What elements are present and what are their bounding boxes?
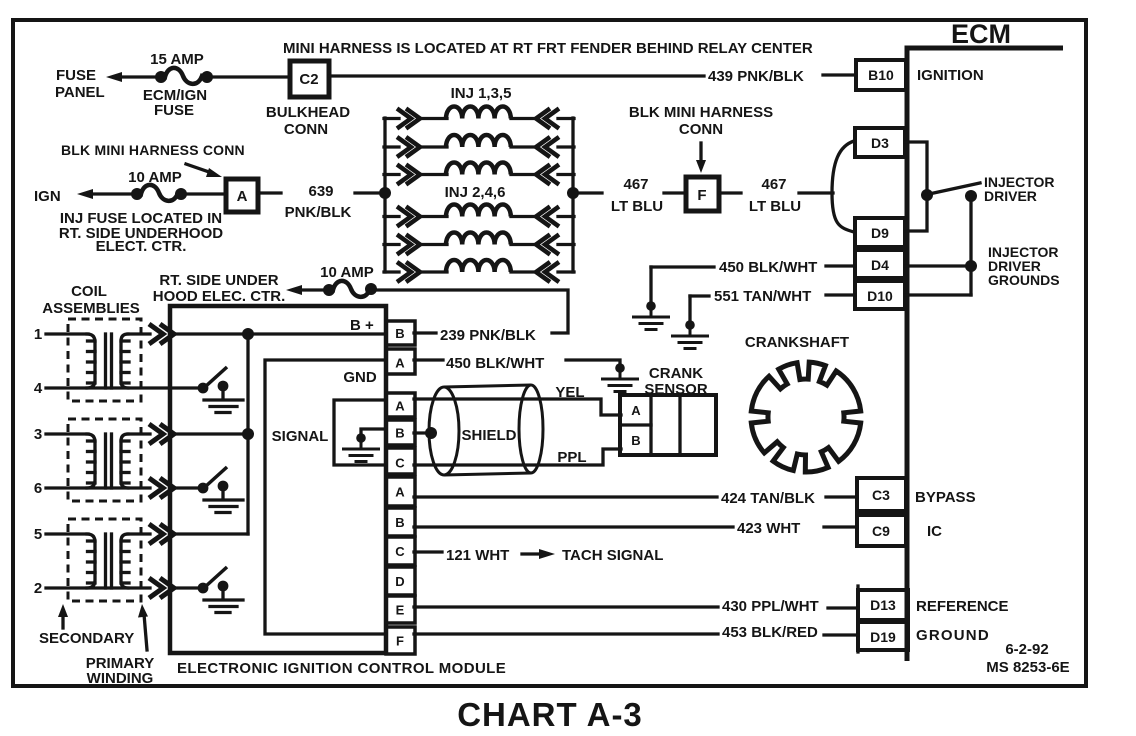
wire 639 to injector rail [355, 191, 384, 194]
node injector driver grounds top [965, 190, 977, 202]
svg-text:ELECTRONIC IGNITION CONTROL MO: ELECTRONIC IGNITION CONTROL MODULE [177, 660, 506, 677]
svg-text:423 WHT: 423 WHT [737, 520, 800, 537]
wire pin C to crank sensor (PPL) [414, 449, 621, 465]
svg-text:CRANKSHAFT: CRANKSHAFT [745, 334, 849, 351]
bracket curve D3-D9 [832, 141, 854, 232]
svg-text:GROUND: GROUND [916, 627, 990, 644]
svg-text:SECONDARY: SECONDARY [39, 630, 134, 647]
injector row (INJ 2) [384, 205, 574, 227]
svg-text:YEL: YEL [555, 384, 584, 401]
ECM pin C3 [855, 478, 858, 546]
svg-text:450 BLK/WHT: 450 BLK/WHT [446, 355, 544, 372]
wire D10 to ground node [905, 293, 971, 296]
injector row (INJ 6) [384, 260, 574, 282]
svg-text:WINDING: WINDING [87, 670, 154, 687]
svg-text:A: A [395, 485, 405, 500]
svg-text:COIL: COIL [71, 283, 107, 300]
pin B [386, 508, 415, 536]
wire F to 467 label [719, 191, 741, 194]
svg-text:C2: C2 [299, 71, 318, 88]
connector A [226, 179, 258, 212]
svg-text:3: 3 [34, 426, 42, 443]
svg-text:PPL: PPL [557, 449, 586, 466]
ground (450 BLK/WHT) [632, 301, 670, 329]
svg-text:IGNITION: IGNITION [917, 67, 984, 84]
svg-text:GROUNDS: GROUNDS [988, 272, 1060, 288]
chevron row 1 [149, 324, 174, 344]
wire 450 BLK/WHT to D4 [826, 264, 855, 267]
pin E [386, 596, 415, 623]
injector bank left rail [383, 118, 386, 272]
chevron row 2 [149, 578, 174, 598]
svg-text:A: A [395, 399, 405, 414]
ECM pin D10 [855, 281, 905, 309]
svg-text:INJ 1,3,5: INJ 1,3,5 [451, 85, 512, 102]
node: 639 junction on left rail [379, 187, 391, 199]
svg-text:CHART A-3: CHART A-3 [457, 696, 643, 733]
svg-text:IGN: IGN [34, 188, 61, 205]
node bus top [242, 328, 254, 340]
svg-text:5: 5 [34, 526, 42, 543]
pin A [386, 477, 415, 506]
switch driver 3/6 [198, 467, 243, 513]
svg-text:D9: D9 [871, 225, 889, 241]
svg-text:D3: D3 [871, 135, 889, 151]
svg-text:1: 1 [34, 326, 42, 343]
svg-text:639: 639 [308, 183, 333, 200]
svg-text:C9: C9 [872, 523, 890, 539]
chevron row 6 [149, 478, 174, 498]
svg-text:B: B [631, 433, 640, 448]
svg-text:B: B [395, 326, 404, 341]
svg-text:CONN: CONN [679, 121, 723, 138]
svg-text:REFERENCE: REFERENCE [916, 598, 1009, 615]
shield cylinder [429, 385, 543, 475]
ECM pin D4 [855, 250, 905, 278]
wire internal signal ground [361, 429, 386, 433]
bracket signal pins [334, 400, 386, 465]
svg-text:F: F [697, 187, 706, 204]
svg-text:D10: D10 [867, 288, 893, 304]
wire to F [664, 191, 684, 194]
svg-text:E: E [396, 603, 405, 618]
ECM pin D9 [855, 218, 905, 247]
svg-text:A: A [237, 188, 248, 205]
ECM box outline [907, 48, 1063, 661]
ECM pin D19 [858, 622, 908, 650]
chevron row 5 [149, 524, 174, 544]
pin D [386, 567, 415, 595]
wire pin A to crank sensor (YEL) [414, 399, 621, 415]
wire 121 WHT tach [414, 550, 442, 553]
svg-text:15 AMP: 15 AMP [150, 51, 204, 68]
pin C (tach) [386, 537, 415, 565]
wire fuse to C2 [212, 75, 289, 78]
svg-text:INJ 2,4,6: INJ 2,4,6 [445, 184, 506, 201]
ECM pin D13 [856, 586, 859, 652]
pin C (signal) [386, 448, 415, 474]
connector F [686, 177, 719, 211]
svg-text:FUSE: FUSE [56, 67, 96, 84]
svg-text:4: 4 [34, 380, 43, 397]
injector bank right rail [571, 118, 574, 272]
svg-text:439 PNK/BLK: 439 PNK/BLK [708, 68, 804, 85]
svg-text:C3: C3 [872, 487, 890, 503]
svg-text:453 BLK/RED: 453 BLK/RED [722, 624, 818, 641]
wire 467 to D3/D9 bracket [799, 191, 833, 194]
ECM pin D3 [855, 128, 905, 157]
svg-text:ASSEMBLIES: ASSEMBLIES [42, 300, 140, 317]
svg-text:D19: D19 [870, 629, 896, 645]
svg-text:D13: D13 [870, 597, 896, 613]
svg-text:PNK/BLK: PNK/BLK [285, 204, 352, 221]
svg-text:LT BLU: LT BLU [749, 198, 801, 215]
wire 551 TAN/WHT to D10 [826, 293, 855, 296]
svg-text:121 WHT: 121 WHT [446, 547, 509, 564]
wire row 2 [46, 586, 150, 589]
crank sensor connector [620, 395, 716, 455]
svg-text:B: B [395, 426, 404, 441]
svg-text:HOOD ELEC. CTR.: HOOD ELEC. CTR. [153, 288, 286, 305]
ECM pin B10 [856, 60, 906, 90]
wire 239 PNK/BLK [376, 290, 568, 333]
coil assembly 1/4 [46, 319, 150, 401]
switch driver 5/2 [198, 567, 243, 613]
arrow to fuse panel [106, 72, 122, 82]
svg-text:239 PNK/BLK: 239 PNK/BLK [440, 327, 536, 344]
svg-text:551 TAN/WHT: 551 TAN/WHT [714, 288, 811, 305]
svg-text:A: A [395, 356, 405, 371]
arrow to connector F [699, 143, 702, 163]
injector row (INJ 3) [384, 135, 574, 157]
ground (551 TAN/WHT) [671, 320, 709, 348]
electronic ignition control module box [170, 306, 386, 653]
svg-text:10 AMP: 10 AMP [128, 169, 182, 186]
node bus row 3 [242, 428, 254, 440]
svg-text:MINI HARNESS IS LOCATED AT RT: MINI HARNESS IS LOCATED AT RT FRT FENDER… [283, 40, 813, 57]
wire row 6 [46, 486, 150, 489]
injector row (INJ 1) [384, 107, 574, 129]
arrow to IGN [77, 189, 93, 199]
svg-text:B: B [395, 515, 404, 530]
svg-text:MS 8253-6E: MS 8253-6E [986, 659, 1069, 676]
node: 467 junction on right rail [567, 187, 579, 199]
svg-text:C: C [395, 456, 405, 471]
svg-text:424 TAN/BLK: 424 TAN/BLK [721, 490, 815, 507]
svg-text:467: 467 [761, 176, 786, 193]
coil assembly 3/6 [46, 419, 150, 501]
ground (signal) [342, 433, 380, 461]
wire row 5 to bus [174, 532, 248, 535]
wire primary bus [246, 334, 249, 534]
wire 467 left segment [579, 191, 602, 194]
pin B (B+) [386, 321, 415, 345]
svg-text:TACH SIGNAL: TACH SIGNAL [562, 547, 663, 564]
svg-text:ELECT. CTR.: ELECT. CTR. [96, 238, 187, 255]
fuse ECM/IGN 15 AMP [155, 71, 167, 83]
coil assembly 5/2 [46, 519, 150, 601]
svg-text:SIGNAL: SIGNAL [272, 428, 329, 445]
svg-text:CONN: CONN [284, 121, 328, 138]
svg-text:BLK MINI HARNESS: BLK MINI HARNESS [629, 104, 773, 121]
ECM pin C9 [857, 515, 906, 546]
svg-text:C: C [395, 544, 405, 559]
node injector driver [921, 189, 933, 201]
fuse INJ 10 AMP [131, 188, 143, 200]
injector row (INJ 5) [384, 163, 574, 185]
svg-text:CRANK: CRANK [649, 365, 703, 382]
wire pin B to shield [414, 431, 429, 434]
svg-text:6-2-92: 6-2-92 [1005, 641, 1048, 658]
ground (450 BLK/WHT) [601, 363, 639, 391]
svg-text:D: D [395, 574, 404, 589]
wire 423 WHT [414, 525, 733, 528]
svg-text:A: A [631, 403, 641, 418]
wire 453 BLK/RED [414, 632, 718, 635]
svg-text:BULKHEAD: BULKHEAD [266, 104, 350, 121]
svg-text:ECM: ECM [951, 19, 1011, 49]
svg-text:2: 2 [34, 580, 42, 597]
svg-text:467: 467 [623, 176, 648, 193]
crankshaft reluctor wheel [751, 362, 860, 472]
pin A (signal) [386, 393, 415, 417]
injector row (INJ 4) [384, 233, 574, 255]
wire injector driver grounds vertical [969, 196, 972, 295]
svg-text:IC: IC [927, 523, 942, 540]
svg-text:450 BLK/WHT: 450 BLK/WHT [719, 259, 817, 276]
svg-text:BYPASS: BYPASS [915, 489, 976, 506]
pin A (GND) [386, 349, 415, 374]
wire C2 to 439 label [329, 74, 704, 77]
svg-text:DRIVER: DRIVER [984, 188, 1037, 204]
wire B+ [174, 332, 386, 335]
svg-text:430 PPL/WHT: 430 PPL/WHT [722, 598, 819, 615]
svg-text:GND: GND [343, 369, 377, 386]
wire 450 BLK/WHT (module GND) [414, 358, 443, 361]
fuse 10 AMP (ECM B+) [323, 284, 335, 296]
arrow to connector A [186, 164, 212, 173]
wire D3 to injector driver node [905, 142, 927, 231]
svg-text:D4: D4 [871, 257, 889, 273]
bulkhead connector C2 [290, 61, 329, 97]
arrow to elec ctr [286, 285, 302, 295]
switch driver 1/4 [198, 367, 243, 413]
pin F [386, 627, 415, 654]
svg-text:FUSE: FUSE [154, 102, 194, 119]
svg-text:LT BLU: LT BLU [611, 198, 663, 215]
svg-text:F: F [396, 634, 404, 649]
node shield drain [425, 427, 437, 439]
wire 430 PPL/WHT [414, 605, 718, 608]
svg-text:SHIELD: SHIELD [461, 427, 516, 444]
wire row 3 to bus [174, 432, 248, 435]
chevron row 3 [149, 424, 174, 444]
svg-text:B10: B10 [868, 67, 894, 83]
pin B (signal) [386, 420, 415, 445]
wire fuse to A [186, 192, 225, 195]
svg-text:PANEL: PANEL [55, 84, 105, 101]
wire A to 639 label [258, 191, 281, 194]
svg-text:RT. SIDE UNDER: RT. SIDE UNDER [159, 272, 278, 289]
leader to INJECTOR DRIVER label [929, 183, 980, 194]
wire D4 to ground node [905, 264, 971, 267]
wire internal gnd loop [265, 360, 386, 634]
svg-text:6: 6 [34, 480, 42, 497]
svg-text:10 AMP: 10 AMP [320, 264, 374, 281]
svg-text:BLK MINI HARNESS CONN: BLK MINI HARNESS CONN [61, 142, 245, 158]
wire 439 to B10 [823, 73, 856, 76]
wire 424 TAN/BLK [414, 495, 717, 498]
wire row 4 to switch [46, 386, 199, 389]
svg-text:B +: B + [350, 317, 374, 334]
